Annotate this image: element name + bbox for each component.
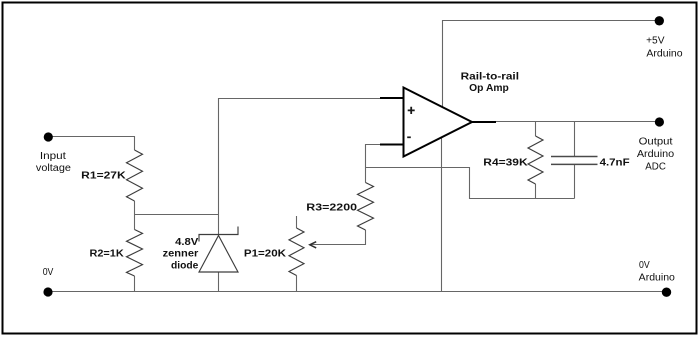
potentiometer wiper arrowhead	[310, 242, 316, 248]
svg-text:Op Amp: Op Amp	[469, 83, 509, 94]
wire: op-amp minus input to R3 top	[366, 145, 405, 183]
op-amp U1 output stub	[471, 121, 496, 123]
wire: R4 top lead from output run	[535, 122, 537, 137]
wire: zener anode to 0V rail	[218, 272, 220, 292]
wire: input terminal to R1 top	[48, 137, 135, 151]
svg-text:ADC: ADC	[645, 162, 666, 173]
svg-text:0V: 0V	[43, 267, 54, 278]
wire: R3 bottom lead and wiper run	[311, 230, 366, 245]
svg-text:+5V: +5V	[646, 36, 665, 47]
wire: R1/R2 junction to zener vertical	[135, 214, 219, 216]
terminal: Output Arduino ADC	[655, 117, 664, 126]
wire: R2 bottom lead to 0V rail	[134, 276, 136, 292]
svg-text:4.8V: 4.8V	[175, 237, 199, 248]
op-amp U1 non-inverting input stub	[380, 97, 404, 99]
svg-text:P1=20K: P1=20K	[244, 249, 287, 260]
svg-text:R1=27K: R1=27K	[81, 171, 126, 182]
resistor R4	[528, 136, 543, 184]
wire: zener vertical and op-amp + input	[219, 99, 405, 235]
svg-text:4.7nF: 4.7nF	[600, 157, 630, 168]
svg-text:Arduino: Arduino	[639, 273, 676, 284]
potentiometer P1	[289, 228, 304, 276]
op-amp plus sign	[408, 107, 415, 114]
svg-text:diode: diode	[171, 261, 199, 272]
wire: +5V top run	[443, 21, 660, 111]
wire: R1 bottom lead through junction to R2 top	[134, 201, 136, 230]
resistor R2	[127, 230, 143, 277]
svg-text:0V: 0V	[639, 260, 650, 271]
svg-text:Arduino: Arduino	[646, 48, 683, 59]
op-amp minus sign	[407, 136, 411, 138]
svg-text:zenner: zenner	[163, 249, 199, 260]
op-amp U1 inverting input stub	[380, 144, 404, 146]
resistor R1	[127, 150, 143, 201]
zener diode D1 triangle	[199, 236, 238, 273]
zener diode D1 cathode bar	[199, 227, 238, 242]
svg-text:R2=1K: R2=1K	[90, 249, 125, 260]
wire: feedback tap from minus line to bottom feedback run	[366, 168, 575, 199]
svg-text:Input: Input	[40, 151, 66, 162]
wire: bottom 0V rail	[48, 291, 667, 293]
svg-text:R4=39K: R4=39K	[483, 157, 528, 168]
wire: capacitor bottom lead to feedback run	[574, 165, 576, 199]
terminal: 0V Arduino	[662, 288, 671, 297]
op-amp U1 triangle	[404, 88, 473, 157]
terminal: input voltage	[44, 132, 53, 141]
svg-text:Arduino: Arduino	[637, 149, 675, 160]
resistor R3	[358, 183, 374, 231]
capacitor C1 plates	[551, 156, 598, 158]
svg-text:Output: Output	[639, 137, 673, 148]
wire: op-amp output to output terminal	[472, 121, 659, 123]
wire: capacitor top lead from output run	[574, 122, 576, 158]
svg-text:Rail-to-rail: Rail-to-rail	[461, 72, 520, 83]
wire: P1 bottom lead to 0V rail	[296, 276, 298, 292]
terminal: 0V left	[43, 287, 52, 296]
svg-text:voltage: voltage	[36, 163, 71, 174]
wire: P1 top free lead	[296, 216, 298, 228]
wire: R4 bottom lead to feedback run	[535, 184, 537, 199]
terminal: +5V Arduino	[655, 16, 664, 25]
wire: op-amp V- stub to 0V rail	[441, 132, 443, 292]
svg-text:R3=2200: R3=2200	[306, 202, 357, 213]
